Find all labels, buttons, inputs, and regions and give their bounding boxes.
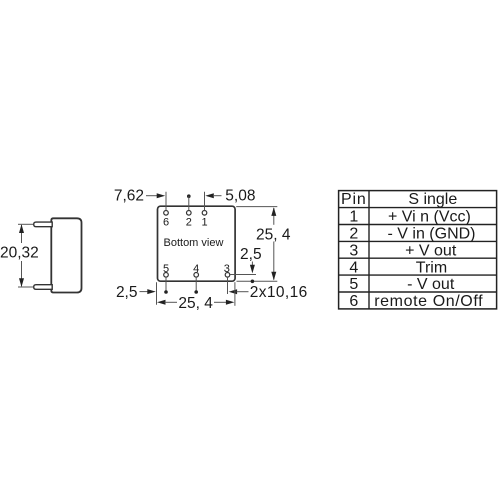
pin 1 hole <box>202 211 207 216</box>
pin 4 hole <box>194 273 199 278</box>
body left edge extension line down <box>156 282 158 305</box>
svg-text:Pin: Pin <box>341 191 367 208</box>
pin 3 hole <box>225 273 230 278</box>
svg-text:+ V out: + V out <box>405 243 457 260</box>
svg-text:2,5: 2,5 <box>116 284 138 301</box>
dim 2,5 bottom arrow line <box>140 291 149 293</box>
svg-text:- V in (GND): - V in (GND) <box>388 226 476 243</box>
svg-text:6: 6 <box>349 293 358 310</box>
dim 25,4 vertical line upper <box>273 208 275 225</box>
datum dot bottom right <box>251 280 255 284</box>
svg-text:6: 6 <box>163 216 169 228</box>
dim 25,4 arrowhead down <box>271 272 276 281</box>
body top edge extension line right <box>236 206 277 208</box>
pin 6 extension line up <box>165 192 167 211</box>
body bottom edge extension line right <box>237 280 278 282</box>
bottom view body <box>158 206 236 281</box>
svg-text:remote On/Off: remote On/Off <box>374 293 483 310</box>
svg-text:3: 3 <box>349 243 358 260</box>
body right edge extension line down <box>234 282 236 306</box>
dim 5,08 arrow line <box>213 195 222 197</box>
side view bottom pin <box>34 285 53 290</box>
dim 25,4 bottom arrowhead right <box>226 300 235 305</box>
svg-text:2,5: 2,5 <box>240 246 262 263</box>
svg-text:5: 5 <box>349 276 358 293</box>
svg-text:2: 2 <box>349 226 358 243</box>
dim 2,5 arrow line <box>251 262 253 267</box>
svg-text:5,08: 5,08 <box>225 188 255 205</box>
dim 20,32 line lower segment <box>21 261 23 286</box>
pin table column divider <box>368 191 370 309</box>
pin 1 extension line up <box>204 192 206 211</box>
svg-text:1: 1 <box>201 216 207 228</box>
pin table row line 5 <box>339 274 497 276</box>
svg-text:2x10,16: 2x10,16 <box>250 284 308 301</box>
dim 2,5 bottom arrowhead right <box>147 289 156 294</box>
dim 20,32 arrowhead down <box>19 278 24 287</box>
svg-text:4: 4 <box>349 259 358 276</box>
dim 25,4 arrowhead up <box>271 207 276 216</box>
dim 5,08 arrowhead left <box>205 193 214 198</box>
svg-text:20,32: 20,32 <box>0 244 39 261</box>
pin table row line 6 <box>339 291 497 293</box>
dim 2x10,16 arrow line <box>237 291 249 293</box>
dim 7,62 arrow line <box>146 195 158 197</box>
pin 5 hole <box>164 273 169 278</box>
svg-text:S ingle: S ingle <box>408 191 457 208</box>
pin 2 hole <box>187 211 192 216</box>
pin 4 lead dot <box>194 290 198 294</box>
svg-text:7,62: 7,62 <box>114 188 144 205</box>
pin 6 hole <box>164 211 169 216</box>
pin table row line 1 <box>339 207 497 209</box>
pin 2 extension line <box>188 196 190 210</box>
dim 2x10,16 arrowhead left <box>229 289 238 294</box>
svg-text:2: 2 <box>186 216 192 228</box>
pin 3 extension line right <box>230 274 256 276</box>
svg-text:+ Vi n (Vcc): + Vi n (Vcc) <box>388 209 471 226</box>
svg-text:25, 4: 25, 4 <box>256 227 291 244</box>
pin 5 lead <box>165 277 167 292</box>
pin 3 extension line down <box>227 277 229 294</box>
pin table row line 3 <box>339 240 497 242</box>
pin 2 datum dot <box>187 194 191 198</box>
dim 25,4 vertical line lower <box>273 242 275 280</box>
side view body <box>51 218 81 292</box>
svg-text:1: 1 <box>349 209 358 226</box>
dim 20,32 extension tick bottom <box>18 286 33 288</box>
pin table row line 4 <box>339 257 497 259</box>
dim 20,32 arrowhead up <box>19 224 24 233</box>
dim 25,4 bottom line left <box>165 301 178 303</box>
dim 25,4 bottom arrowhead left <box>157 300 166 305</box>
dim 25,4 bottom line right <box>214 301 227 303</box>
svg-text:Bottom view: Bottom view <box>164 237 224 249</box>
pin 4 lead <box>195 277 197 292</box>
dim 2,5 arrowhead down <box>250 265 255 274</box>
pin table outer border <box>339 191 497 309</box>
pin 5 lead dot <box>164 290 168 294</box>
svg-text:25, 4: 25, 4 <box>178 295 213 312</box>
svg-text:- V out: - V out <box>407 276 455 293</box>
dim 20,32 extension tick top <box>18 223 33 225</box>
svg-text:Trim: Trim <box>416 259 447 276</box>
dim 7,62 arrowhead right <box>157 193 166 198</box>
pin table row line 2 <box>339 224 497 226</box>
dim 20,32 line upper segment <box>21 225 23 243</box>
side view top pin <box>34 222 53 227</box>
